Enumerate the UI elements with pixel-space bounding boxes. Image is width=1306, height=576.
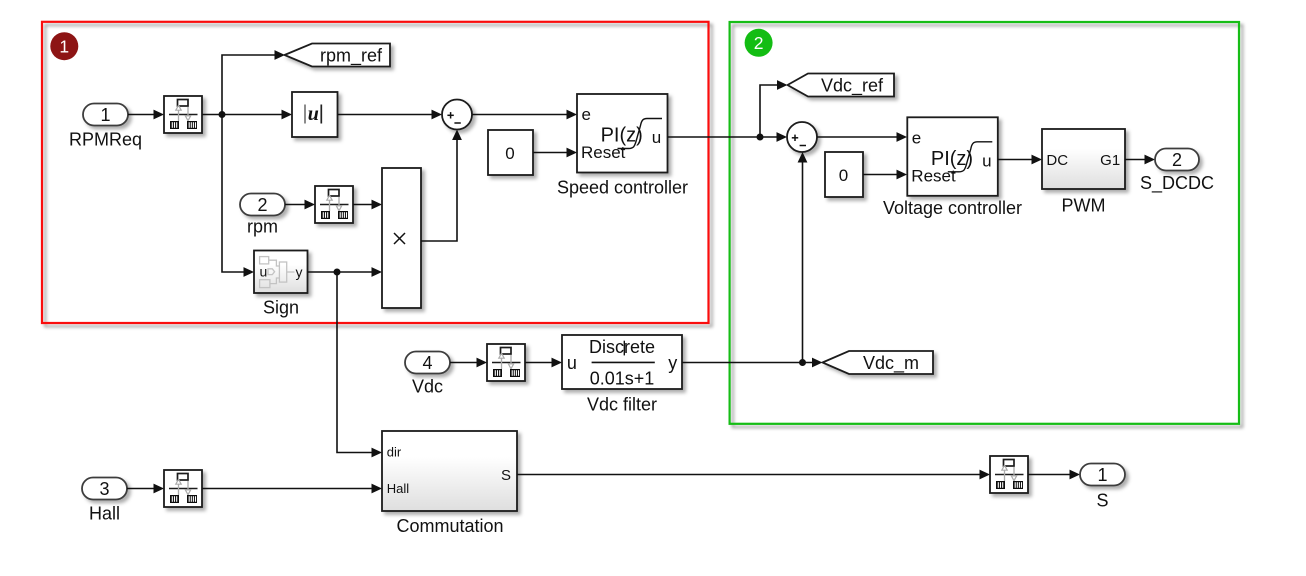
svg-text:S: S (1096, 491, 1108, 511)
svg-text:u: u (982, 151, 991, 170)
wire inport3 to RT4 (127, 484, 164, 494)
wire Vdc filter to goto Vdc_m with junction (682, 358, 823, 368)
wire inport1 to RT1 (128, 110, 164, 120)
transfer function Vdc filter (562, 335, 682, 389)
svg-text:Vdc_m: Vdc_m (863, 353, 919, 374)
badge 1 (50, 32, 78, 60)
wire RT5 to outport 1 (1028, 470, 1080, 480)
svg-text:RPMReq: RPMReq (69, 129, 142, 149)
svg-text:1: 1 (59, 37, 69, 57)
PI controller U1 Speed controller (577, 94, 668, 173)
svg-text:rpm: rpm (247, 216, 278, 236)
svg-text:4: 4 (422, 353, 432, 373)
svg-text:dir: dir (387, 444, 402, 459)
svg-text:Vdc filter: Vdc filter (587, 394, 657, 414)
abs block |u| (292, 92, 338, 137)
PWM block (1042, 129, 1125, 189)
wire branch down to Sign (222, 115, 254, 277)
wire RT3 to Vdc filter (525, 358, 562, 368)
outport 2 S_DCDC (1155, 149, 1199, 171)
svg-text:2: 2 (257, 195, 267, 215)
wire PI1 u to sum2 with junction (668, 132, 788, 142)
inport 2 rpm (240, 194, 285, 216)
svg-text:1: 1 (1097, 465, 1107, 485)
constant C1 value 0 (488, 130, 533, 175)
svg-text:Vdc: Vdc (412, 377, 443, 397)
area box 2 (green region) (730, 22, 1239, 424)
svg-text:Voltage controller: Voltage controller (883, 198, 1022, 218)
svg-text:2: 2 (754, 33, 764, 53)
PI controller U2 Voltage controller (907, 117, 998, 196)
goto tag Vdc_ref (788, 74, 895, 97)
outport 1 S (1080, 464, 1125, 486)
svg-text:Speed controller: Speed controller (557, 177, 688, 197)
svg-text:Hall: Hall (89, 504, 120, 524)
svg-text:PI(z): PI(z) (931, 148, 973, 170)
svg-text:2: 2 (1172, 150, 1182, 170)
inport 1 RPMReq (83, 104, 128, 126)
inport 3 Hall (82, 478, 127, 500)
svg-text:y: y (296, 264, 303, 280)
wire C1 to PI1 Reset (533, 148, 577, 158)
svg-text:e: e (582, 105, 591, 124)
sum block S2 (787, 122, 817, 152)
svg-text:y: y (668, 353, 677, 373)
wire RT1 to abs with junction (202, 110, 292, 120)
badge 2 (745, 29, 773, 57)
wire C2 to PI2 Reset (863, 170, 907, 180)
area box 1 (red region) (42, 22, 709, 323)
svg-text:e: e (912, 128, 921, 147)
wire branch up to goto rpm_ref (222, 50, 285, 114)
rate transition R5 (990, 456, 1028, 493)
svg-text:G1: G1 (1100, 152, 1120, 169)
rate transition R1 (164, 96, 202, 133)
wire sum1 to PI1 e (472, 110, 577, 120)
wire RT2 to product input 1 (353, 200, 382, 210)
wire PWM G1 to outport 2 (1125, 155, 1155, 165)
wire branch up to goto Vdc_ref (760, 80, 788, 137)
Commutation subsystem block (382, 431, 517, 511)
svg-text:PI(z): PI(z) (601, 125, 643, 147)
svg-text:3: 3 (99, 479, 109, 499)
svg-text:0: 0 (505, 144, 514, 163)
wire Sign to product input 2 with junction (308, 267, 383, 277)
rate transition R2 (315, 186, 353, 223)
wire product to sum1 bottom (421, 130, 462, 242)
wire RT4 to Commutation Hall (202, 484, 382, 494)
wire abs to sum1 (338, 110, 443, 120)
rate transition R3 (487, 344, 525, 381)
wire PI2 u to PWM DC (998, 155, 1042, 165)
wire inport2 to RT2 (285, 200, 315, 210)
svg-text:u: u (260, 264, 268, 280)
svg-text:DC: DC (1046, 152, 1068, 169)
svg-text:PWM: PWM (1062, 196, 1106, 216)
wire Commutation S to RT5 (517, 470, 990, 480)
svg-text:Hall: Hall (387, 481, 410, 496)
inport 4 Vdc (405, 352, 450, 374)
goto tag Vdc_m (823, 351, 934, 374)
svg-text:1: 1 (100, 105, 110, 125)
svg-text:u: u (652, 128, 661, 147)
svg-text:rpm_ref: rpm_ref (320, 45, 383, 66)
wire branch down to Commutation dir (337, 272, 382, 457)
wire inport4 to RT3 (450, 358, 487, 368)
svg-text:S_DCDC: S_DCDC (1140, 173, 1214, 194)
constant C2 value 0 (825, 152, 863, 197)
svg-text:u: u (308, 103, 319, 125)
Sign block (254, 251, 308, 294)
product block X1 (382, 168, 421, 308)
wire sum2 to PI2 e (817, 132, 907, 142)
svg-text:Sign: Sign (263, 298, 299, 318)
wire branch up to sum2 bottom (798, 152, 808, 363)
sum block S1 (442, 100, 472, 130)
goto tag rpm_ref (285, 44, 391, 67)
svg-text:Vdc_ref: Vdc_ref (821, 75, 884, 96)
svg-text:0.01s+1: 0.01s+1 (590, 368, 655, 388)
svg-text:S: S (501, 467, 511, 484)
rate transition R4 (164, 470, 202, 507)
svg-text:Commutation: Commutation (396, 516, 503, 536)
svg-text:u: u (567, 353, 577, 373)
svg-text:Discrete: Discrete (589, 337, 655, 357)
svg-text:0: 0 (839, 166, 848, 185)
